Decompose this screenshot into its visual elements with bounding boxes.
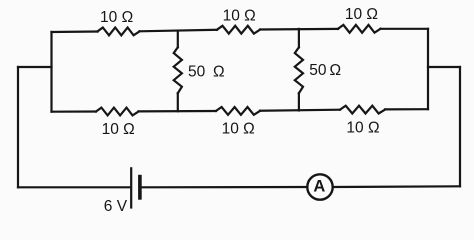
wire: top rail between R1 and R2 [140,30,218,32]
wire: shunt 1 top lead [177,31,179,48]
svg-text:A: A [313,177,325,195]
wire: shunt 2 bottom lead [298,93,300,110]
wire: left stub to outer loop [18,66,52,68]
wire: top rail left segment [52,30,98,33]
wire: bottom loop right segment [333,185,460,188]
wire: top rail between R2 and R3 [260,28,338,31]
battery 6 V positive plate (long) [130,168,132,207]
ammeter A [307,174,332,199]
wire: bottom ladder rail between R4 and R5 [139,110,217,113]
wire: right stub to outer loop [428,66,460,68]
resistor 10 ohm (bottom-middle) [216,107,260,115]
wire: left ladder rail [50,32,52,112]
resistor 10 ohm (top-right) [338,25,381,33]
wire: shunt 2 top lead [298,29,300,47]
wire: bottom loop between battery and ammeter [142,186,308,189]
resistor 50 ohm (left shunt) [174,47,182,93]
wire: outer left rail [17,67,19,187]
resistor 10 ohm (top-middle) [217,26,260,34]
svg-text:10 Ω: 10 Ω [223,8,256,25]
resistor 10 ohm (bottom-right) [340,106,385,114]
wire: shunt 1 bottom lead [177,93,179,111]
svg-text:10 Ω: 10 Ω [222,121,255,138]
resistor 10 ohm (bottom-left) [96,108,139,116]
wire: bottom loop left segment to battery [18,186,130,188]
svg-text:6 V: 6 V [104,198,128,215]
svg-text:50Ω: 50Ω [188,63,225,80]
battery 6 V negative plate (short, thick) [138,177,142,198]
wire: outer right rail [459,67,461,186]
resistor 10 ohm (top-left) [98,28,140,36]
svg-text:10 Ω: 10 Ω [346,120,379,137]
wire: bottom ladder rail right segment [385,108,428,110]
svg-text:50Ω: 50Ω [309,62,341,79]
svg-text:10 Ω: 10 Ω [345,6,378,23]
wire: bottom ladder rail between R5 and R6 [260,110,340,111]
resistor 50 ohm (right shunt) [295,47,303,93]
wire: top rail right segment [381,28,429,30]
svg-text:10 Ω: 10 Ω [100,9,133,26]
wire: bottom ladder rail left segment [52,110,97,112]
svg-text:10 Ω: 10 Ω [102,121,135,138]
wire: right ladder rail [427,29,429,109]
